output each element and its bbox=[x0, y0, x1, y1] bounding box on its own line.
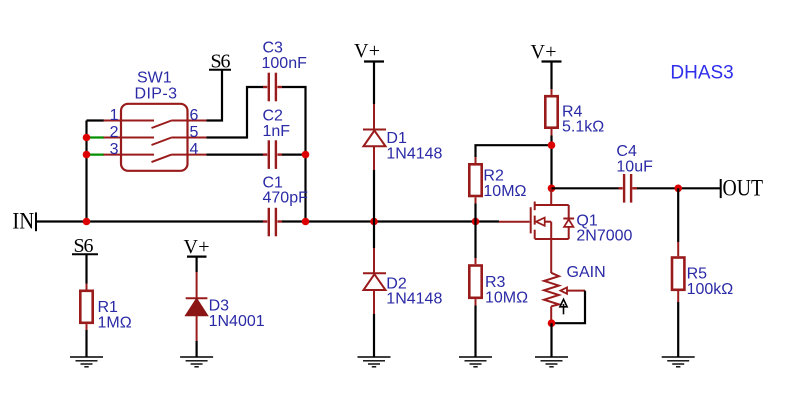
svg-text:V+: V+ bbox=[531, 41, 557, 63]
svg-text:2N7000: 2N7000 bbox=[576, 228, 632, 245]
potentiometer GAIN bbox=[544, 264, 606, 323]
wire R5 to ground bbox=[677, 302, 679, 357]
wire IN to C1 bbox=[36, 220, 264, 222]
resistor R1 1M bbox=[80, 284, 131, 332]
resistor R3 10M bbox=[469, 258, 528, 306]
svg-text:1N4001: 1N4001 bbox=[209, 313, 265, 330]
svg-text:SW1: SW1 bbox=[137, 70, 172, 87]
wire gate stub bbox=[499, 221, 530, 223]
wire pin1 link bbox=[87, 119, 105, 121]
wire D2 to ground bbox=[373, 314, 375, 357]
wire pin4 to C2 bbox=[207, 154, 264, 156]
wire R4 to drain node bbox=[550, 136, 552, 189]
svg-text:V+: V+ bbox=[354, 40, 380, 62]
wire R1 to ground bbox=[85, 330, 87, 357]
wire D1 to main bbox=[373, 170, 375, 222]
diode D2 1N4148 bbox=[363, 248, 442, 314]
svg-text:1nF: 1nF bbox=[263, 123, 291, 140]
wire pin3 green stub bbox=[87, 154, 104, 156]
wire C3 right to C2 node bbox=[282, 87, 306, 155]
svg-text:DIP-3: DIP-3 bbox=[135, 86, 178, 103]
wire OUT node to R5 bbox=[677, 188, 679, 242]
svg-text:1N4148: 1N4148 bbox=[386, 145, 442, 162]
node IN terminal bbox=[12, 208, 36, 233]
svg-text:5.1kΩ: 5.1kΩ bbox=[562, 119, 604, 136]
wire wiper loop bbox=[553, 291, 585, 324]
ground (R5) bbox=[662, 357, 695, 367]
switch SW1 DIP-3 bbox=[104, 70, 207, 171]
power V+ symbol (D1 branch) bbox=[354, 40, 384, 104]
svg-text:1MΩ: 1MΩ bbox=[98, 314, 132, 331]
svg-text:10uF: 10uF bbox=[616, 159, 653, 176]
node junction dot (475.5,221.5) bbox=[472, 218, 480, 226]
node junction dot (86.5,154.6) bbox=[83, 151, 91, 159]
node S6 bottom label bbox=[72, 235, 98, 257]
wire C2 to main line bbox=[282, 154, 306, 156]
wire S6 to R1 bbox=[85, 254, 87, 283]
node junction dot (551.5,188.3) bbox=[548, 185, 556, 193]
node junction dot (551.5,145.2) bbox=[548, 141, 556, 149]
wire left vertical branch x=86.5 bbox=[85, 121, 87, 222]
wire D3 to ground bbox=[196, 341, 198, 357]
wire C1 to Q1 gate area bbox=[282, 220, 499, 222]
wire R3 to ground bbox=[474, 306, 476, 358]
capacitor C3 bbox=[262, 39, 308, 101]
wire R2 top link bbox=[476, 145, 552, 157]
svg-text:100kΩ: 100kΩ bbox=[687, 281, 734, 298]
svg-text:V+: V+ bbox=[184, 236, 210, 258]
pot adjust arrow bbox=[560, 299, 567, 314]
capacitor C2 bbox=[263, 108, 291, 169]
wire drain node to C4 bbox=[552, 187, 619, 189]
diode D1 1N4148 bbox=[363, 104, 443, 170]
svg-text:10MΩ: 10MΩ bbox=[485, 289, 528, 306]
svg-text:10MΩ: 10MΩ bbox=[483, 183, 526, 200]
wire C4 to OUT bbox=[637, 187, 721, 189]
capacitor C1 bbox=[263, 174, 309, 236]
wire main to R3 bbox=[474, 222, 476, 259]
svg-text:IN: IN bbox=[12, 208, 34, 233]
svg-text:2: 2 bbox=[110, 124, 119, 141]
ground (R3) bbox=[459, 357, 492, 367]
node OUT terminal bbox=[721, 176, 763, 201]
node junction dot (676.8,188.3) bbox=[674, 185, 682, 193]
diode D3 1N4001 bbox=[186, 272, 265, 341]
svg-text:5: 5 bbox=[190, 124, 199, 141]
wire branch vertical x=305.5 bbox=[304, 155, 306, 222]
resistor R2 10M bbox=[469, 157, 526, 204]
svg-text:OUT: OUT bbox=[723, 176, 764, 201]
svg-text:3: 3 bbox=[110, 141, 119, 158]
ground (pot) bbox=[535, 357, 568, 367]
node junction dot (86.5,137.5) bbox=[83, 134, 91, 142]
svg-text:DHAS3: DHAS3 bbox=[670, 62, 733, 83]
wire pot to ground bbox=[550, 323, 552, 357]
svg-text:1: 1 bbox=[110, 107, 119, 124]
wire main to D2 bbox=[373, 222, 375, 249]
wire pin5 to C3 bbox=[207, 87, 264, 138]
capacitor C4 10uF bbox=[616, 143, 653, 202]
ground (R1) bbox=[70, 357, 103, 367]
svg-text:6: 6 bbox=[190, 107, 199, 124]
resistor R4 5.1k bbox=[545, 89, 604, 136]
wire pin6 to S6 bbox=[207, 70, 223, 121]
svg-text:100nF: 100nF bbox=[262, 55, 308, 72]
svg-text:1N4148: 1N4148 bbox=[386, 291, 442, 308]
node junction dot (305.5,154.6) bbox=[302, 151, 310, 159]
node junction dot (86.5,221.5) bbox=[83, 218, 91, 226]
resistor R5 100k bbox=[672, 242, 733, 302]
transistor Q1 2N7000 bbox=[531, 188, 633, 273]
wire pin2 green stub bbox=[87, 136, 104, 138]
node junction dot (305.5,221.5) bbox=[302, 218, 310, 226]
ground (D2) bbox=[358, 357, 391, 367]
wire R2 to main bbox=[474, 204, 476, 222]
power V+ symbol (R4 branch) bbox=[531, 41, 562, 89]
svg-text:GAIN: GAIN bbox=[567, 264, 606, 281]
node junction dot (374,221.5) bbox=[370, 218, 378, 226]
svg-text:4: 4 bbox=[190, 141, 199, 158]
power V+ symbol (D3 branch) bbox=[184, 236, 210, 272]
svg-text:470pF: 470pF bbox=[263, 190, 309, 207]
node junction dot (551.5,323.2) bbox=[548, 319, 556, 327]
node S6 top label bbox=[209, 51, 231, 73]
ground (D3) bbox=[180, 357, 213, 367]
